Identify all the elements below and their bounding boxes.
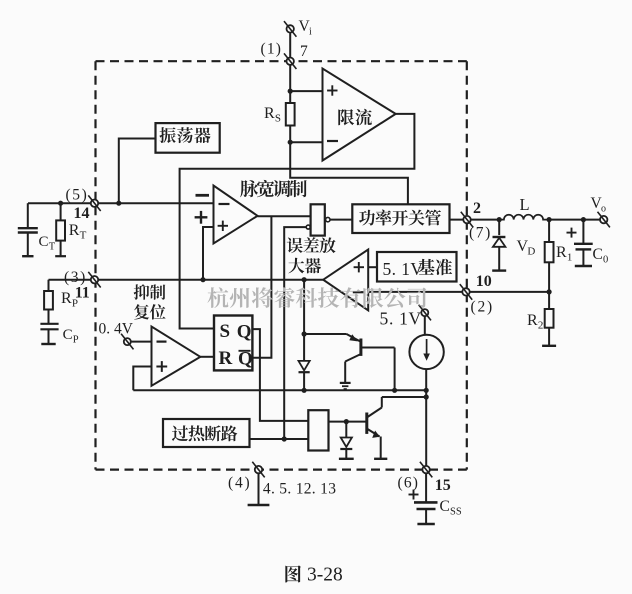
label 误差放大器 [287,237,303,253]
svg-text:1: 1 [567,252,573,264]
node emitter branch [302,331,307,336]
wire Vi input vertical [289,29,291,91]
PWM + marks [195,211,208,224]
svg-text:C: C [39,234,49,250]
svg-text:(1): (1) [261,41,283,58]
thermal shutdown box 过热断路 [163,419,250,447]
svg-text:(5): (5) [66,187,89,204]
watermark [208,287,229,308]
node R1 top [547,217,552,222]
pin 14 terminal [88,195,100,211]
svg-text:o: o [601,204,606,215]
node R1 bottom [547,289,552,294]
reference box 5.1V基准 [377,252,457,282]
svg-text:5. 1V: 5. 1V [383,259,424,279]
svg-text:P: P [73,335,79,346]
svg-text:R: R [69,222,80,239]
node at Rs bottom [288,140,293,145]
port circle left-bottom [306,225,310,229]
svg-text:R: R [556,244,567,261]
wire driver to Q2 base [329,421,367,423]
svg-text:C: C [63,327,73,343]
wire current source down to pin 15 [425,369,427,470]
wire power switch to pin 2 [450,219,500,221]
capacitor C0 polarized [574,220,593,266]
PWM - marks [196,194,210,197]
svg-text:(6): (6) [398,475,420,492]
diode at Q2 base [339,422,354,459]
transistor Q1 PNP [304,334,395,390]
pin 10 terminal [460,284,472,300]
svg-text:C: C [440,498,450,515]
node RT junction [58,201,63,206]
wire to current-limit - input [290,141,322,143]
svg-text:4. 5. 12. 13: 4. 5. 12. 13 [263,481,336,498]
svg-text:(2): (2) [471,299,494,316]
node base to rail [392,388,397,393]
node rail to current source [424,388,429,393]
svg-text:Q: Q [237,321,252,342]
svg-text:15: 15 [435,477,451,494]
wire pin14 horizontal to PWM - input [28,202,214,204]
svg-text:(7): (7) [469,224,492,241]
resistor RT [55,203,66,256]
oscillator box 振荡器 [156,123,220,153]
svg-text:(3): (3) [64,269,87,286]
pin 4 ground [248,470,270,505]
label 限流 [338,109,354,125]
label 脉宽调制 [240,180,258,197]
svg-text:7: 7 [300,43,308,60]
svg-text:SS: SS [450,507,462,518]
IC dashed boundary box [96,61,467,469]
svg-text:2: 2 [538,320,544,332]
node Q2 base diode [344,419,349,424]
wire to current-limit + input [290,90,322,92]
svg-text:14: 14 [74,205,90,222]
svg-text:0: 0 [603,255,608,266]
inductor L [499,215,549,220]
resistor R1 [545,220,554,292]
wire comparator + input to rail [133,367,151,391]
pin 7 terminal [284,53,296,69]
node PWM + input junction [200,277,205,282]
svg-text:T: T [80,230,87,242]
wire to power switch [330,219,352,221]
wire left port down to thermal wire [284,227,306,439]
svg-text:3-28: 3-28 [307,565,343,586]
pin 4 terminal [252,462,264,478]
svg-text:L: L [520,195,530,214]
capacitor CSS [414,470,438,524]
svg-text:S: S [220,321,231,342]
pin 2 terminal [461,212,473,228]
resistor R2 [542,292,556,346]
wire comparator output to flip-flop R [200,356,215,358]
pin 11 terminal [88,272,100,288]
power switch box 功率开关管 [352,204,449,233]
capacitor CT [18,203,38,256]
wire 0.4V to comparator - input [131,341,152,343]
diode on comp branch [299,361,310,372]
label 抑制 复位 [134,284,150,300]
op-amp current-limit 限流 [323,69,396,161]
wire Q output down to driver [252,329,308,421]
wire Qbar output up to PWM output [252,216,271,358]
node Q2 collector to source line [424,394,429,399]
node on thermal wire [282,436,287,441]
svg-text:S: S [275,113,281,125]
svg-text:i: i [309,27,312,38]
svg-text:R: R [527,312,538,329]
svg-text:11: 11 [75,285,90,302]
svg-text:2: 2 [473,200,481,217]
svg-text:5. 1V: 5. 1V [380,308,422,328]
node oscillator junction [116,201,121,206]
plus of CSS [409,490,419,500]
svg-text:R: R [219,348,233,369]
svg-text:D: D [527,246,535,258]
wire L to Vo [549,219,599,221]
wire oscillator to pin14 line [119,139,156,204]
transistor Q2 NPN [367,397,426,459]
node at Rs top [288,89,293,94]
diode VD freewheel [492,220,506,271]
rail wire horizontal [133,389,426,391]
wire current-limit output to flip-flop S input [180,114,415,329]
terminal Vo [598,212,610,228]
port circle right [326,217,330,221]
pin 15 terminal [420,462,432,478]
PWM output block rect [311,204,325,235]
terminal Vi [284,21,296,37]
svg-text:10: 10 [476,273,492,290]
capacitor CP [40,324,58,344]
svg-text:C: C [593,246,603,263]
wire PWM output [258,215,311,217]
node diode to rail [302,388,307,393]
current source circle [409,335,443,369]
caption 图 3-28 [285,565,301,582]
svg-text:R: R [61,290,72,307]
wire error + to reference [368,266,377,268]
flip-flop SR box [214,316,252,371]
wire Rs bottom to power switch top [290,142,408,204]
comparator suppress-reset 抑制复位 [152,327,201,386]
terminal 0.4V [121,334,133,350]
node comp line branch [302,277,307,282]
comparator PWM 脉宽调制 [214,186,258,244]
wire pin11 comp line [49,279,324,281]
wire thermal to driver block [250,438,309,440]
svg-text:0. 4V: 0. 4V [99,321,134,338]
wire comp branch down [303,280,305,361]
wire 5.1V to current source [424,316,426,335]
wire PWM + input [203,227,214,280]
node switch output [497,217,502,222]
resistor RS [286,91,295,142]
op-amp error 误差放大器 [323,250,368,311]
svg-text:R: R [264,105,275,122]
plus of C0 [567,228,577,238]
svg-text:(4): (4) [228,475,251,492]
resistor RP [44,280,53,324]
node C0 top [581,217,586,222]
svg-text:T: T [49,242,56,253]
driver block rect [308,410,328,450]
wire error amp - input to pin10 to R1 bottom [368,291,549,293]
terminal 5.1V [419,305,431,321]
